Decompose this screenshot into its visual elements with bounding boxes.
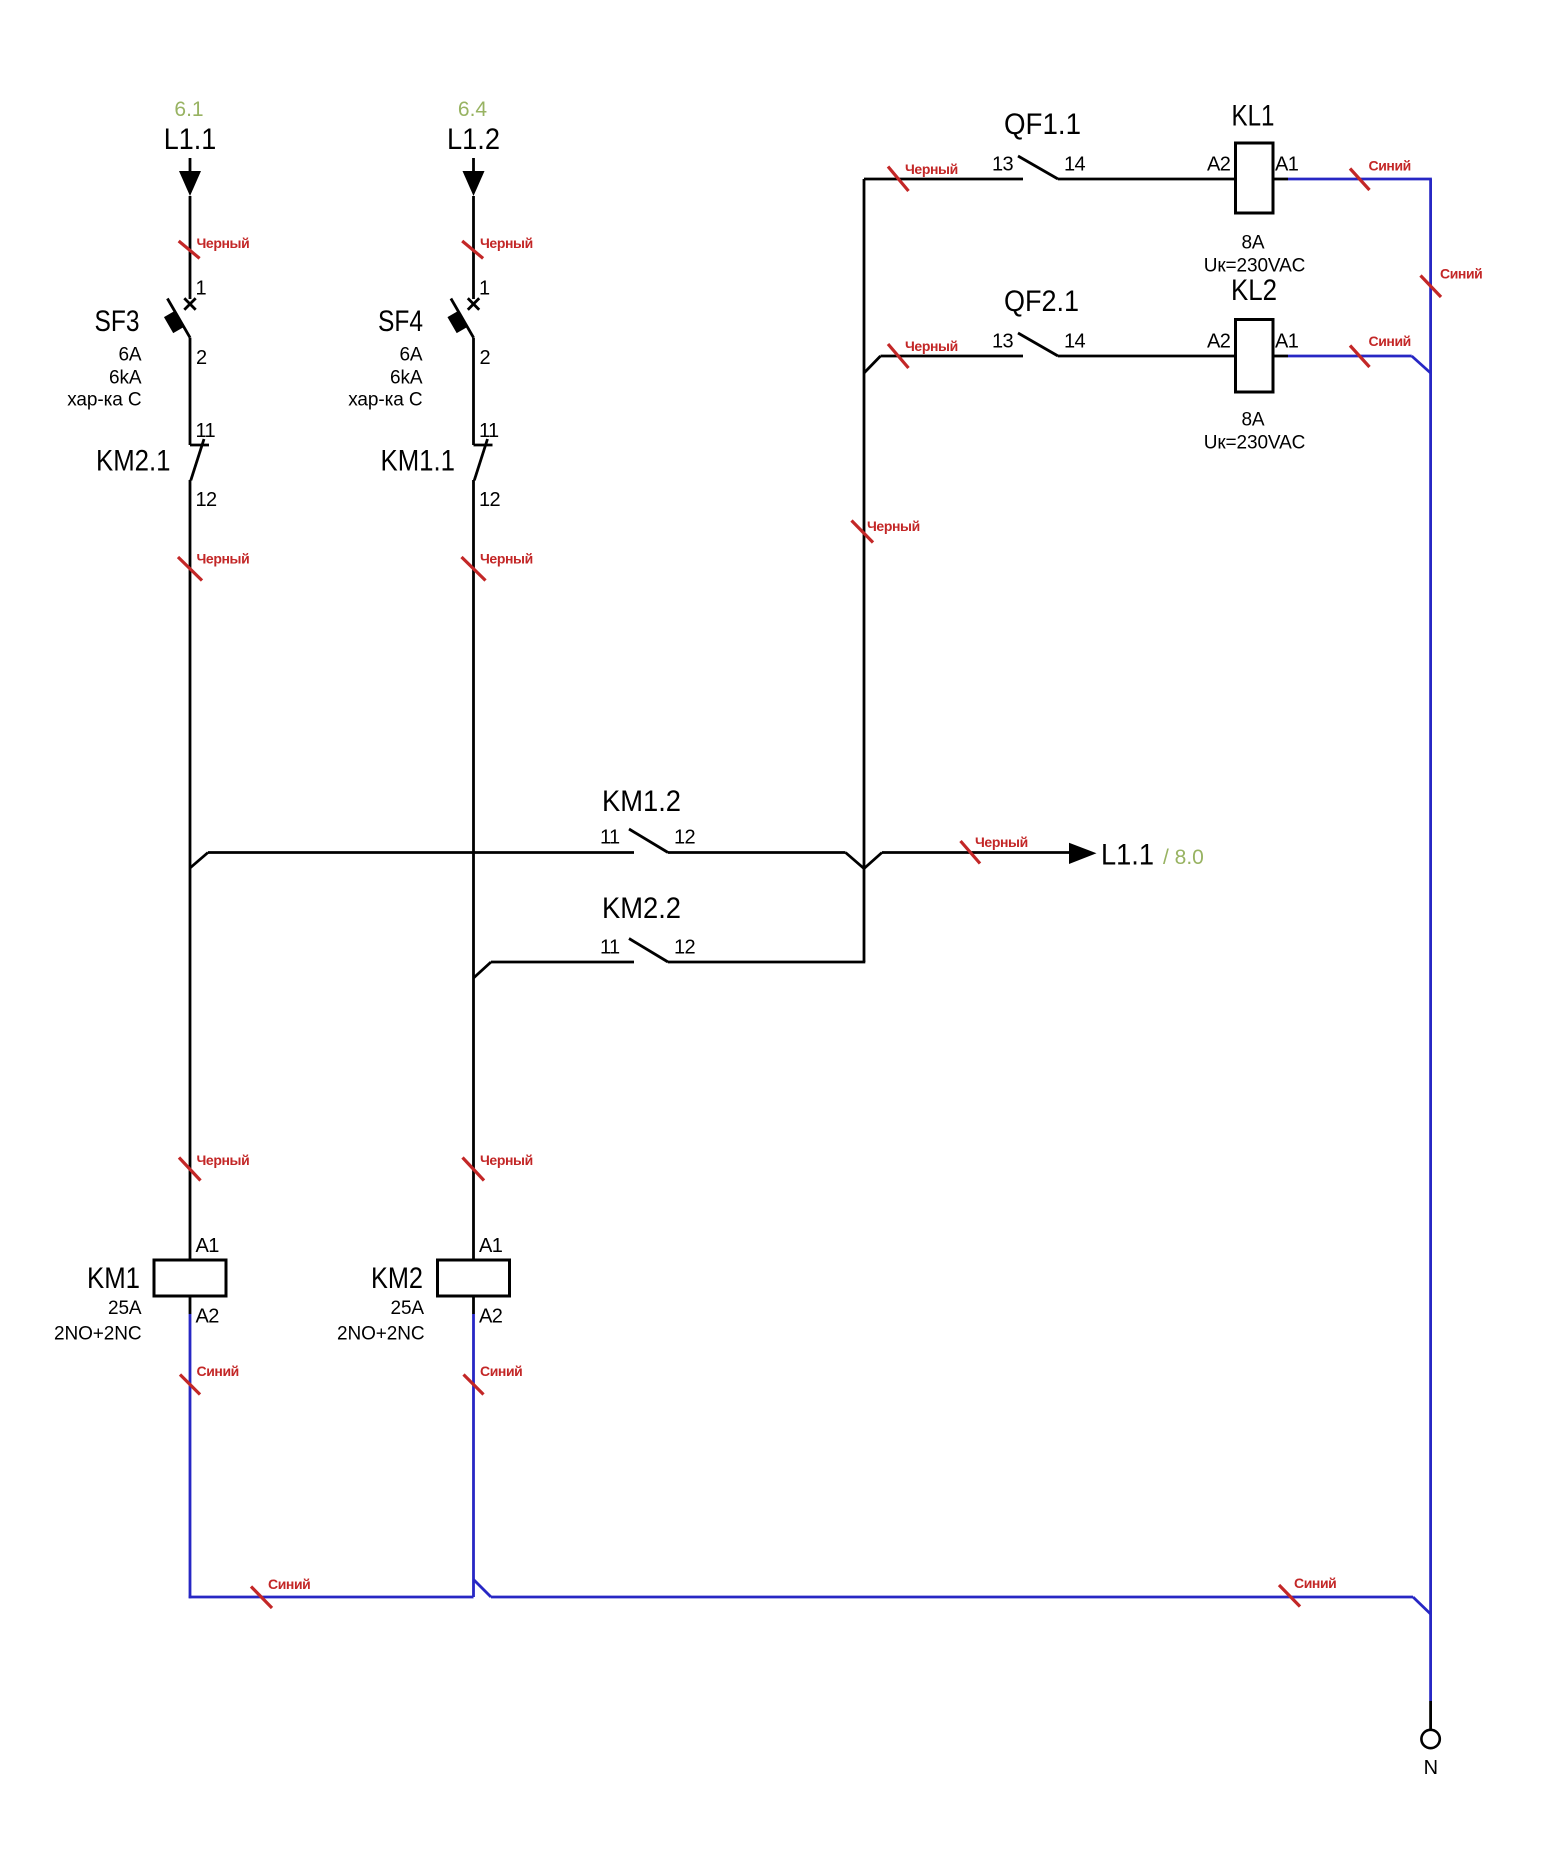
svg-text:Черный: Черный [480, 1152, 533, 1168]
wire color slash (Синий) [464, 1375, 484, 1395]
svg-text:6.1: 6.1 [174, 98, 203, 121]
blue wire KM2 A2 down to bottom bus [472, 1314, 475, 1597]
wire contact to bus V junction [668, 851, 846, 854]
wire color slash (Синий) [1350, 169, 1370, 191]
svg-text:2NO+2NC: 2NO+2NC [337, 1324, 424, 1345]
svg-text:8A: 8A [1241, 233, 1264, 254]
svg-text:Черный: Черный [197, 551, 250, 567]
wire color slash (Черный) [462, 557, 486, 581]
svg-text:Синий: Синий [268, 1576, 310, 1592]
svg-text:A2: A2 [1207, 154, 1231, 176]
svg-text:2: 2 [196, 347, 207, 369]
wire color slash (Синий) on right bus [1421, 276, 1442, 298]
wire V junction to arrow [882, 851, 1069, 854]
NO contact KM2.2 [629, 939, 668, 963]
wire color slash (Черный) [463, 1158, 485, 1181]
svg-text:KL2: KL2 [1231, 274, 1277, 307]
breaker SF3 [164, 298, 196, 337]
svg-text:A2: A2 [196, 1306, 220, 1328]
wire color slash (Синий) [1279, 1585, 1300, 1607]
blue bus right segment [491, 1596, 1413, 1599]
svg-text:Синий: Синий [1369, 158, 1411, 174]
contactor coil KM2 [438, 1260, 510, 1296]
wire L1.1 down to SF3 pin 1 [189, 196, 192, 299]
wire KM2.1 down to junction [189, 480, 192, 868]
NO contact QF2.1 [1018, 333, 1058, 356]
svg-text:Черный: Черный [975, 834, 1028, 850]
svg-text:1: 1 [196, 278, 207, 300]
bus diagonal into right vertical [1413, 1597, 1431, 1614]
svg-text:11: 11 [479, 420, 499, 442]
black wire to N terminal [1429, 1701, 1432, 1730]
svg-text:Черный: Черный [480, 551, 533, 567]
wire below KM1 coil [189, 1296, 192, 1314]
junction to KM1.2 row [190, 853, 208, 869]
svg-text:11: 11 [600, 937, 620, 959]
svg-text:8A: 8A [1241, 410, 1264, 431]
svg-text:Синий: Синий [197, 1363, 239, 1379]
svg-text:L1.2: L1.2 [447, 123, 500, 156]
svg-text:12: 12 [196, 489, 218, 511]
svg-text:A1: A1 [1275, 154, 1299, 176]
wire from branch1 junction to contact [208, 851, 634, 854]
wire QF2.1 to KL2 [1058, 355, 1236, 358]
wire L1.2 down to SF4 pin 1 [472, 196, 475, 299]
blue wire KL2 A1 toward right bus [1288, 355, 1412, 358]
wire junction down to KM2 coil [472, 978, 475, 1260]
svg-text:A1: A1 [1275, 331, 1299, 353]
wire color slash (Черный) [179, 1158, 201, 1181]
svg-text:12: 12 [674, 827, 696, 849]
svg-text:6A: 6A [399, 345, 422, 366]
contactor coil KM1 [154, 1260, 226, 1296]
svg-text:Синий: Синий [1440, 266, 1482, 282]
svg-text:Синий: Синий [1369, 333, 1411, 349]
svg-text:A2: A2 [1207, 331, 1231, 353]
svg-text:QF2.1: QF2.1 [1004, 285, 1079, 318]
blue wire KL1 A1 to right bus [1288, 178, 1432, 181]
svg-text:25A: 25A [390, 1298, 424, 1319]
wire contact to bus [668, 961, 865, 964]
svg-text:1: 1 [479, 278, 490, 300]
NO contact KM1.2 [629, 829, 668, 853]
svg-text:KM2.1: KM2.1 [96, 445, 171, 478]
incoming feed arrow L1.2 [463, 158, 485, 196]
svg-text:Синий: Синий [480, 1363, 522, 1379]
blue right bus vertical [1429, 179, 1432, 1701]
svg-text:6.4: 6.4 [458, 98, 488, 121]
svg-text:12: 12 [479, 489, 501, 511]
wire KM1.1 down to junction [472, 480, 475, 978]
svg-text:12: 12 [674, 937, 696, 959]
svg-text:L1.1: L1.1 [164, 123, 217, 156]
wire below KM2 coil [472, 1296, 475, 1314]
blue bus left segment [189, 1596, 474, 1599]
incoming feed arrow L1.1 [179, 158, 201, 196]
blue diagonal joining right bus [1412, 356, 1431, 373]
relay coil KL1 [1236, 143, 1274, 213]
black stub right of KL1 [1273, 178, 1288, 181]
svg-text:Черный: Черный [197, 235, 250, 251]
svg-text:13: 13 [992, 154, 1014, 176]
wire from branch2 junction to contact [491, 961, 634, 964]
svg-text:хар-ка C: хар-ка C [348, 390, 422, 411]
QF1.1 row wire left [864, 178, 1023, 181]
svg-text:25A: 25A [108, 1298, 142, 1319]
wire color slash (Синий) [1350, 346, 1370, 368]
branch2 diagonal into bus [474, 1580, 492, 1598]
relay coil KL2 [1236, 320, 1274, 393]
terminal circle N [1421, 1730, 1439, 1748]
svg-text:Черный: Черный [480, 235, 533, 251]
svg-text:Черный: Черный [867, 518, 920, 534]
blue wire KM1 A2 down to bottom bus [189, 1314, 192, 1598]
NC contact KM1.1 [474, 439, 493, 480]
svg-text:N: N [1424, 1757, 1438, 1779]
svg-text:11: 11 [196, 420, 216, 442]
NO contact QF1.1 [1018, 156, 1058, 179]
wire color slash (Синий) [251, 1587, 272, 1609]
svg-text:A1: A1 [479, 1235, 503, 1257]
QF2.1 row wire left [881, 355, 1024, 358]
svg-text:QF1.1: QF1.1 [1004, 108, 1081, 141]
QF2.1 branch diagonal from bus [864, 356, 881, 373]
svg-text:11: 11 [600, 827, 620, 849]
wire color slash (Черный) [888, 167, 909, 192]
svg-text:Uк=230VAC: Uк=230VAC [1204, 433, 1306, 454]
svg-text:13: 13 [992, 331, 1014, 353]
svg-text:KL1: KL1 [1232, 100, 1275, 133]
black bus vertical [863, 179, 866, 962]
svg-text:KM1.1: KM1.1 [381, 445, 456, 478]
wire color slash (Черный) [178, 557, 202, 581]
svg-text:6kA: 6kA [109, 368, 142, 389]
svg-text:хар-ка C: хар-ка C [67, 390, 141, 411]
svg-text:14: 14 [1064, 154, 1086, 176]
wire SF4 pin2 down to KM1.1 [472, 338, 475, 445]
wire color slash (Синий) [180, 1375, 200, 1395]
svg-text:A1: A1 [196, 1235, 220, 1257]
svg-text:Синий: Синий [1294, 1575, 1336, 1591]
svg-text:L1.1: L1.1 [1101, 839, 1154, 872]
svg-text:KM1: KM1 [87, 1262, 140, 1295]
svg-text:SF4: SF4 [378, 305, 423, 338]
svg-text:SF3: SF3 [95, 305, 140, 338]
svg-text:6A: 6A [118, 345, 141, 366]
svg-text:Черный: Черный [905, 338, 958, 354]
wire color slash (Черный) [888, 344, 909, 368]
breaker SF4 [447, 298, 479, 337]
black stub right of KL2 [1273, 355, 1288, 358]
wire color slash (Черный) [961, 841, 981, 864]
svg-text:KM2: KM2 [371, 1262, 423, 1295]
svg-text:A2: A2 [479, 1306, 503, 1328]
V junction on black bus [846, 853, 883, 869]
wire color slash (Черный) on bus [852, 521, 874, 543]
svg-text:2NO+2NC: 2NO+2NC [54, 1324, 141, 1345]
outgoing arrow to L1.1 [1069, 843, 1097, 864]
svg-text:KM2.2: KM2.2 [602, 892, 681, 925]
svg-text:14: 14 [1064, 331, 1086, 353]
wire color slash (Черный) [462, 241, 483, 258]
wire junction down to KM1 coil [189, 868, 192, 1260]
svg-text:KM1.2: KM1.2 [602, 785, 681, 818]
wire SF3 pin2 down to KM2.1 [189, 338, 192, 445]
wire color slash (Черный) [179, 241, 200, 258]
svg-text:Черный: Черный [197, 1152, 250, 1168]
svg-text:6kA: 6kA [390, 368, 423, 389]
junction to KM2.2 row [474, 962, 492, 978]
wire QF1.1 to KL1 [1058, 178, 1236, 181]
svg-text:Черный: Черный [905, 161, 958, 177]
svg-text:2: 2 [480, 347, 491, 369]
NC contact KM2.1 [190, 439, 209, 480]
svg-text:/ 8.0: / 8.0 [1163, 846, 1204, 869]
